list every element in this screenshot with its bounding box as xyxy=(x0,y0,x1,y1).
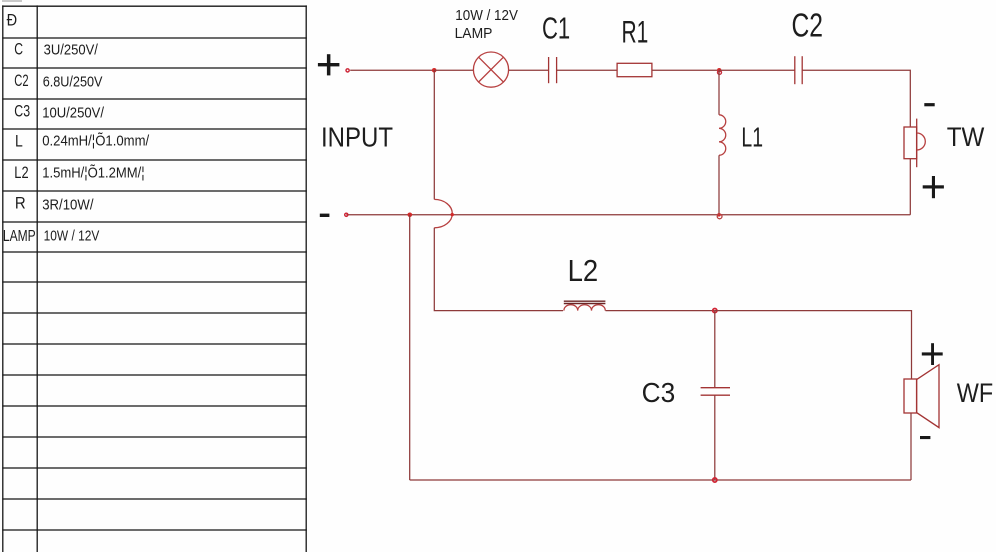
svg-text:C1: C1 xyxy=(542,11,570,45)
svg-text:C: C xyxy=(14,41,23,59)
svg-text:L1: L1 xyxy=(741,121,763,152)
node E junction dot xyxy=(713,309,717,313)
svg-text:0.24mH/¦Õ1.0mm/: 0.24mH/¦Õ1.0mm/ xyxy=(42,133,150,150)
input plus terminal dot xyxy=(346,69,349,72)
wire: R1 to node B xyxy=(652,69,719,71)
table row header texts xyxy=(3,11,36,245)
table value texts xyxy=(42,42,150,245)
wire: plus terminal to node A xyxy=(350,69,434,71)
wire: tweeter down to lower-right corner xyxy=(909,159,911,215)
node F junction dot xyxy=(713,478,717,482)
wire: lamp to C1 xyxy=(509,69,549,71)
svg-text:1.5mH/¦Õ1.2MM/¦: 1.5mH/¦Õ1.2MM/¦ xyxy=(42,165,145,182)
wire: L2 to node E xyxy=(606,310,715,312)
wire hop over minus rail xyxy=(434,199,452,227)
wire: node A to lamp xyxy=(434,69,473,71)
capacitor C2 xyxy=(795,56,802,84)
wire: C1 to R1 xyxy=(557,69,617,71)
lamp label xyxy=(455,7,518,42)
inductor L1 xyxy=(719,115,726,156)
node B junction dot xyxy=(717,68,721,72)
wire: node A down to hop xyxy=(433,70,435,199)
svg-text:L: L xyxy=(15,133,23,151)
svg-text:WF: WF xyxy=(957,377,993,408)
svg-text:3U/250V/: 3U/250V/ xyxy=(44,42,99,59)
node C junction dot with ring xyxy=(717,213,722,219)
capacitor C3 branch upper wire xyxy=(714,311,716,388)
svg-text:C2: C2 xyxy=(14,72,28,90)
node D junction dot xyxy=(408,213,413,218)
lamp LA1 (10W/12V) xyxy=(473,52,508,87)
input minus terminal mark xyxy=(320,214,330,217)
wire: woofer down to bottom rail xyxy=(910,413,912,480)
resistor R1 xyxy=(617,63,652,76)
inductor L1 branch wire lower xyxy=(718,155,720,215)
svg-text:R: R xyxy=(15,195,26,213)
inductor L2 xyxy=(564,301,606,310)
woofer plus mark xyxy=(922,343,943,365)
capacitor C3 branch lower wire xyxy=(714,395,716,480)
wire: node B to C2 xyxy=(719,69,795,71)
wire: mid rail (tweeter to minus terminal) xyxy=(346,214,910,216)
svg-text:C3: C3 xyxy=(14,103,30,121)
svg-text:LAMP: LAMP xyxy=(3,228,36,245)
svg-text:L2: L2 xyxy=(14,164,28,182)
node A junction dot xyxy=(432,68,437,73)
svg-text:C2: C2 xyxy=(792,6,824,43)
svg-text:10W / 12V: 10W / 12V xyxy=(44,227,100,244)
svg-text:INPUT: INPUT xyxy=(321,122,393,153)
input plus terminal mark xyxy=(318,54,340,75)
capacitor C1 xyxy=(549,57,557,83)
wire: node D down to bottom rail xyxy=(409,215,411,480)
svg-text:6.8U/250V: 6.8U/250V xyxy=(43,73,103,90)
svg-text:R1: R1 xyxy=(622,14,649,50)
tweeter minus mark xyxy=(924,103,934,106)
svg-text:L2: L2 xyxy=(568,254,599,288)
svg-text:10U/250V/: 10U/250V/ xyxy=(42,104,105,121)
wire: bottom rail xyxy=(410,479,911,481)
woofer minus mark xyxy=(920,436,930,439)
svg-text:10W / 12V: 10W / 12V xyxy=(455,7,518,24)
svg-text:C3: C3 xyxy=(642,377,676,408)
bright spot where hop crosses rail xyxy=(451,213,454,216)
wire: node E to woofer corner xyxy=(715,311,912,379)
input minus terminal dot xyxy=(345,213,348,216)
wire: hop down to L2 corner xyxy=(434,228,563,311)
svg-text:3R/10W/: 3R/10W/ xyxy=(42,196,94,213)
tweeter plus mark xyxy=(923,176,944,198)
stray mark top-left xyxy=(2,0,22,2)
svg-text:Đ: Đ xyxy=(7,11,18,30)
svg-text:TW: TW xyxy=(947,122,985,152)
capacitor C3 xyxy=(701,388,730,396)
parts table grid xyxy=(2,5,307,552)
wire: C2 to top-right corner and down to tweeter xyxy=(803,70,911,127)
woofer WF symbol xyxy=(904,365,939,428)
svg-text:LAMP: LAMP xyxy=(455,25,493,42)
tweeter TW symbol xyxy=(904,119,925,168)
inductor L1 branch wire upper xyxy=(718,70,720,115)
